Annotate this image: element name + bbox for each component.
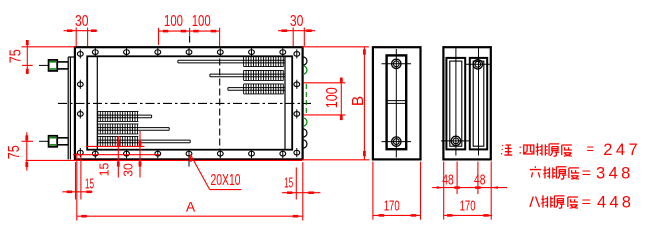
bottom coil tubes: [97, 115, 190, 143]
dimension 30 right: [278, 13, 315, 46]
svg-text:247: 247: [603, 141, 641, 159]
right flange bolts: [294, 49, 300, 157]
side view A top bolt: [382, 59, 412, 68]
dimension 30 vertical: [121, 131, 142, 178]
leader bolt centerline: [188, 160, 190, 167]
dimension 15 bottom right: [282, 168, 320, 200]
svg-text:15: 15: [97, 163, 112, 177]
dimension B: [350, 47, 367, 160]
left end plate: [67, 57, 69, 159]
svg-text:75: 75: [8, 49, 25, 63]
dimension 48 right: [444, 162, 498, 220]
center tick: [189, 36, 191, 43]
svg-text:348: 348: [596, 165, 634, 183]
svg-text:100: 100: [192, 13, 211, 30]
dimension 15 bottom left: [62, 155, 94, 200]
top coil tubes: [178, 60, 285, 90]
side view B left slot: [446, 58, 465, 149]
dimension 75 bottom: [6, 132, 33, 170]
note line 2: [530, 164, 634, 182]
svg-text:170: 170: [384, 198, 400, 215]
left tube sheet: [96, 56, 98, 149]
svg-text:A: A: [186, 199, 196, 215]
pipe stub 2: [39, 136, 68, 147]
dimension 15 vertical: [86, 136, 145, 178]
side view B outline: [443, 47, 490, 159]
svg-text:100: 100: [324, 87, 341, 108]
svg-text:15: 15: [284, 174, 293, 191]
svg-text:448: 448: [597, 194, 634, 212]
dimension 48 left: [432, 171, 507, 189]
vertical dashed line: [219, 59, 221, 151]
note line 1: [501, 141, 641, 159]
main view outer frame: [75, 47, 303, 159]
main view inner frame: [87, 56, 292, 149]
green phantom line: [305, 84, 307, 116]
side view B left slot centerline: [455, 48, 457, 155]
bottom extension line: [26, 159, 303, 161]
horizontal centerline: [58, 102, 311, 104]
side view B bottom bolt: [441, 136, 470, 145]
svg-text:75: 75: [6, 145, 23, 159]
svg-text:=: =: [582, 164, 592, 180]
label 20X10: [189, 155, 241, 190]
svg-text:30: 30: [121, 163, 136, 177]
dimension 100 right: [190, 13, 220, 46]
svg-text:30: 30: [75, 13, 89, 30]
pipe stub 2 green seal: [50, 138, 56, 145]
dimension 75 top: [8, 40, 77, 74]
top flange bolts: [92, 48, 285, 57]
top extension line right: [302, 46, 369, 48]
side view B right slot: [470, 58, 487, 149]
side view A centerline: [395, 49, 397, 158]
svg-text:48: 48: [474, 171, 486, 188]
dimension 100 left: [159, 13, 220, 45]
tube U-bends: [303, 57, 307, 148]
bottom coil fins: [98, 111, 139, 146]
dimension 100 vertical: [303, 78, 345, 121]
side view B right slot centerline: [478, 48, 480, 155]
dimension A: [77, 153, 303, 221]
pipe stub 1: [39, 60, 68, 71]
bottom flange bolts: [92, 149, 285, 158]
svg-text:100: 100: [164, 13, 183, 30]
side view A bottom bolt: [382, 137, 412, 146]
svg-text:15: 15: [85, 176, 94, 193]
svg-text:20X10: 20X10: [211, 172, 241, 189]
dimension 170 left: [373, 162, 421, 220]
pipe stub 1 green seal: [50, 62, 56, 69]
note line 3: [530, 194, 634, 212]
side view B top bolt: [466, 60, 492, 69]
side view A slot: [387, 55, 407, 149]
left flange bolts: [77, 49, 83, 157]
bolt axis extension line: [73, 154, 160, 156]
right tube sheet: [284, 56, 286, 149]
gap extension line: [302, 159, 370, 161]
top coil fins: [244, 57, 284, 94]
svg-text:=: =: [587, 141, 595, 157]
side view A outline: [373, 47, 421, 159]
svg-text:170: 170: [460, 198, 476, 215]
svg-text:=: =: [582, 194, 592, 210]
svg-text:30: 30: [290, 13, 304, 30]
dimension 30 left: [64, 13, 98, 46]
side view A joint lines: [387, 100, 407, 102]
dimension 170 right: [444, 198, 492, 217]
